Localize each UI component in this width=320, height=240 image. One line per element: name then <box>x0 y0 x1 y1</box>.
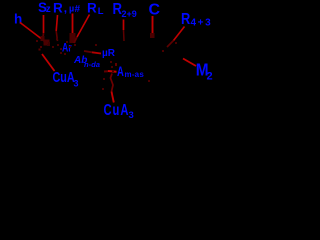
svg-text:2+9: 2+9 <box>122 9 137 19</box>
dark tail of R4+3 line <box>167 41 174 48</box>
leader dash to um <box>84 51 92 52</box>
node blob end of Sz line <box>41 36 45 41</box>
svg-text:m-as: m-as <box>125 70 145 79</box>
node blob end of mu-sharp line <box>70 33 76 43</box>
svg-text:3: 3 <box>74 79 79 89</box>
svg-text:C: C <box>149 1 161 18</box>
svg-text:CuA: CuA <box>53 68 76 85</box>
tick above A of Am-as <box>115 63 117 66</box>
svg-text:µR: µR <box>102 48 116 59</box>
leader line from h <box>20 23 43 41</box>
svg-text:#: # <box>75 4 81 15</box>
leader line from R4+3 <box>174 27 185 41</box>
dark tail of h line <box>43 40 48 44</box>
scattered noise dots <box>36 38 177 90</box>
leader line to CuA3 left <box>42 54 55 71</box>
svg-text:R: R <box>181 11 191 29</box>
leader line from R comma <box>56 15 57 31</box>
leader line from C <box>152 16 154 34</box>
svg-text:R: R <box>87 1 97 16</box>
leader line to M2 <box>183 59 196 67</box>
svg-text:Ar: Ar <box>62 42 72 54</box>
svg-text:CuA: CuA <box>104 100 130 119</box>
svg-text:A: A <box>117 64 124 79</box>
svg-text:µ: µ <box>69 4 74 14</box>
dark tail of Sz line <box>42 33 45 40</box>
svg-text:n-da: n-da <box>84 60 100 69</box>
node blob end of h line <box>44 40 50 46</box>
dark tail of R1 line <box>74 37 77 43</box>
svg-text:4+3: 4+3 <box>191 17 213 28</box>
svg-text:2: 2 <box>207 71 213 83</box>
svg-text:3: 3 <box>129 110 134 121</box>
dark tail of R2+9 line <box>123 30 126 41</box>
leader line from R2+9 <box>123 20 125 31</box>
node blob end of C line <box>150 33 155 38</box>
svg-text:R: R <box>53 1 63 16</box>
svg-text:,: , <box>64 1 67 15</box>
leader line from mu-sharp <box>72 14 74 34</box>
svg-text:L: L <box>98 6 104 17</box>
leader line from Sz <box>43 15 45 33</box>
dots above CuA3 leader <box>39 49 41 51</box>
leader dash to Am-as <box>104 70 108 72</box>
svg-text:z: z <box>46 4 51 15</box>
leader line from R1 <box>77 15 90 38</box>
leader line m (wobbly vertical) to CuA3 bottom <box>111 74 114 92</box>
